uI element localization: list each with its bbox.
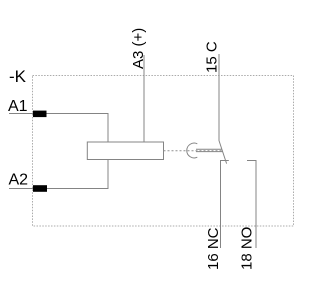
svg-text:A1: A1 <box>8 98 28 115</box>
svg-text:15 C: 15 C <box>204 41 221 73</box>
svg-text:A3 (+): A3 (+) <box>130 28 147 69</box>
svg-text:A2: A2 <box>9 172 29 189</box>
svg-text:16 NC: 16 NC <box>205 227 222 270</box>
svg-text:18 NO: 18 NO <box>239 227 256 270</box>
svg-text:-K: -K <box>9 67 27 86</box>
